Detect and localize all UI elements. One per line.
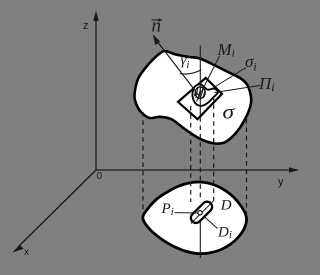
dashed projection line 4 xyxy=(213,96,215,202)
svg-text:n: n xyxy=(152,16,162,37)
D_i patch (rounded) xyxy=(189,200,214,225)
dashed projection line left xyxy=(142,112,144,215)
x axis xyxy=(13,170,97,253)
z axis xyxy=(93,11,99,170)
sigma_i pointer xyxy=(212,68,247,90)
svg-text:z: z xyxy=(83,20,89,32)
surface sigma blob xyxy=(134,51,251,144)
n label (vector) xyxy=(152,16,163,37)
svg-text:x: x xyxy=(24,247,29,258)
svg-text:y: y xyxy=(278,176,284,188)
Pi_i pointer xyxy=(215,86,261,93)
region D blob xyxy=(143,182,247,254)
D_i axis line xyxy=(191,201,213,223)
M_i pointer xyxy=(197,56,220,102)
tangent plane parallelogram Pi_i xyxy=(178,78,222,119)
normal vector n xyxy=(153,34,199,95)
vertical line through M_i (upper solid) xyxy=(199,46,201,115)
dashed projection line 2 xyxy=(190,106,192,202)
dashed projection line 3 (through M_i/P_i) xyxy=(199,117,201,198)
point M_i hatched ellipse xyxy=(194,87,205,99)
svg-text:0: 0 xyxy=(97,171,103,182)
patch sigma_i (bean) xyxy=(192,84,218,106)
point P_i circle xyxy=(198,211,202,215)
svg-text:σ: σ xyxy=(223,103,236,124)
P_i pointer xyxy=(175,212,198,214)
vertical line through P_i (lower solid) xyxy=(199,215,201,258)
gamma_i arc xyxy=(180,70,201,74)
y axis xyxy=(96,167,299,173)
svg-text:D: D xyxy=(220,198,232,214)
dashed projection line right xyxy=(246,119,248,216)
D_i pointer xyxy=(204,216,218,229)
